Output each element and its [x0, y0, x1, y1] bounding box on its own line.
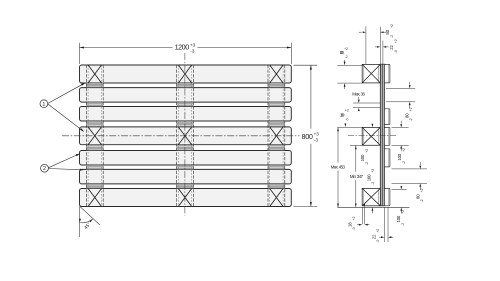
svg-text:-3: -3: [314, 138, 319, 143]
vertical centerline (middle block column): [184, 53, 186, 216]
deck board 4: [80, 127, 292, 145]
dim 80 (right, bottom block row): [392, 189, 407, 191]
hatched block faces in board gaps: [86, 83, 103, 87]
dim Max.36 (left): [353, 102, 380, 104]
deck board 2: [80, 88, 292, 103]
dim 100 (right, center block): [392, 126, 409, 128]
svg-text:Min. 347: Min. 347: [350, 174, 364, 179]
balloon 1 leader lines: [48, 83, 85, 103]
svg-text:-2: -2: [365, 162, 369, 165]
svg-text:80: 80: [385, 29, 390, 34]
dimension 1200 line: [80, 47, 173, 49]
svg-text:-0: -0: [345, 118, 348, 122]
dim text 100+2/-2 (left of band, center): [360, 149, 369, 165]
svg-text:22: 22: [372, 234, 377, 239]
svg-text:+2: +2: [352, 216, 356, 220]
dim 100+2/-0 (left middle): [345, 123, 347, 127]
balloon 1: [40, 100, 48, 108]
dim 22 (top, board thickness): [382, 41, 384, 65]
svg-text:Max. 36: Max. 36: [352, 91, 365, 96]
deck board 7: [80, 189, 292, 207]
top view: pallet deck: [40, 42, 319, 237]
dim Min. 347 (left): [350, 144, 362, 146]
svg-text:1200: 1200: [175, 43, 190, 52]
svg-text:+2: +2: [394, 39, 398, 43]
svg-text:-2: -2: [371, 182, 375, 185]
block X marks: [88, 65, 101, 83]
svg-text:-2: -2: [345, 55, 348, 59]
svg-text:+2: +2: [371, 169, 375, 173]
deck board 3: [80, 107, 292, 122]
svg-text:22: 22: [389, 44, 394, 49]
side view: bottom boards sections (right): [384, 64, 390, 83]
dimension 800 line: [310, 65, 312, 129]
deck board 5: [80, 151, 292, 166]
svg-text:-2: -2: [401, 223, 405, 226]
svg-text:-2: -2: [420, 199, 424, 202]
chamfer 45 deg: angle arc: [80, 219, 93, 223]
dim Max. 453 (left): [337, 126, 362, 128]
svg-text:800: 800: [302, 132, 313, 141]
svg-text:+2: +2: [376, 229, 380, 233]
dim 80 (right, opening): [386, 87, 415, 89]
svg-text:+2: +2: [365, 149, 369, 153]
balloon 2 leader lines: [48, 154, 79, 168]
svg-text:100: 100: [340, 112, 345, 117]
svg-text:18: 18: [348, 222, 353, 227]
svg-text:-2: -2: [409, 118, 413, 121]
dim 22 (bottom middle): [383, 207, 385, 242]
svg-text:2: 2: [43, 166, 46, 172]
svg-text:+2: +2: [344, 47, 348, 51]
svg-text:+3: +3: [190, 42, 196, 47]
deck board 1: [80, 65, 292, 83]
svg-text:-0: -0: [394, 50, 398, 53]
side view: blocks with X: [362, 64, 380, 83]
dim 80 (right, lower opening): [392, 168, 427, 170]
svg-text:+2: +2: [345, 109, 349, 113]
svg-text:-0: -0: [376, 240, 380, 243]
svg-text:100: 100: [396, 215, 401, 222]
svg-text:-0: -0: [352, 227, 356, 230]
side view centerline: [348, 135, 397, 137]
chamfer 45 deg: corner extension line: [79, 207, 81, 238]
side view: [331, 24, 427, 243]
svg-text:+2: +2: [409, 107, 413, 111]
dim 100 (bottom right): [400, 207, 402, 210]
arrow pair at x=372.4 (453 span): [372, 124, 374, 127]
deck board 6: [80, 169, 292, 184]
svg-text:+2: +2: [402, 148, 406, 152]
bottom extension line: [337, 206, 409, 208]
svg-text:-2: -2: [390, 35, 394, 38]
svg-text:+3: +3: [314, 131, 320, 136]
balloon 2: [41, 164, 49, 172]
horizontal centerline: [62, 135, 300, 137]
svg-text:100: 100: [367, 174, 372, 181]
svg-text:100: 100: [397, 153, 402, 160]
arrow on bottom extension line: [372, 207, 374, 210]
chamfer 45 deg: diagonal: [80, 206, 100, 225]
chamfer 45 deg text: [83, 222, 92, 231]
svg-text:-2: -2: [402, 161, 406, 164]
svg-text:+2: +2: [420, 188, 424, 192]
dimension 800 extension lines: [294, 64, 318, 66]
svg-text:80: 80: [416, 194, 421, 199]
dim 18 (bottom left): [361, 207, 363, 224]
svg-text:+2: +2: [401, 210, 405, 214]
svg-text:100: 100: [360, 154, 365, 161]
side view: deck board band (section): [380, 64, 384, 206]
svg-text:1: 1: [42, 102, 45, 108]
svg-text:-3: -3: [190, 48, 195, 53]
dim block height 100+2/-2 (top left): [337, 64, 362, 66]
dim text 100+2/-2 (beside Min. 347): [367, 169, 376, 185]
svg-text:80: 80: [404, 113, 409, 118]
dimension 1200 extension lines: [79, 43, 81, 64]
hidden edges of stringer boards / blocks (dashed): [85, 65, 87, 207]
svg-text:+2: +2: [390, 24, 394, 28]
svg-text:Max. 453: Max. 453: [331, 164, 346, 169]
dim 80 (top, block to band face): [379, 27, 381, 64]
